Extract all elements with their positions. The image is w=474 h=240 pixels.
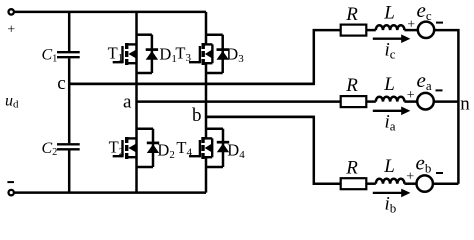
wire capacitor branch upper [68, 12, 71, 51]
capacitor C1 [57, 52, 80, 57]
svg-text:R: R [345, 4, 358, 25]
svg-text:+: + [407, 88, 415, 103]
wire R to L phase b [366, 182, 376, 185]
label minus source c [436, 22, 443, 24]
wire phase c feed vertical [69, 30, 341, 84]
resistor R phase b [341, 178, 367, 189]
wire R to L phase a [366, 100, 376, 103]
diode D2 [147, 129, 159, 167]
wire D3 loop top [206, 33, 223, 36]
arrow current i_a [373, 110, 403, 112]
svg-text:a: a [123, 92, 132, 113]
capacitor C2 [57, 144, 80, 149]
arrow current i_c [373, 38, 403, 40]
source e_a circle [417, 93, 434, 110]
wire L to source phase b [404, 182, 416, 185]
svg-text:n: n [460, 93, 470, 114]
wire node b line [206, 116, 314, 119]
wire capacitor branch lower [68, 150, 71, 192]
label minus sign bottom left [7, 181, 14, 183]
source e_c circle [418, 22, 434, 38]
wire leg 2 vertical middle [205, 62, 208, 139]
svg-text:L: L [383, 74, 395, 95]
terminal positive top left [9, 9, 14, 14]
diode D1 [146, 35, 158, 73]
wire L to source phase c [404, 29, 417, 32]
label minus source b [436, 172, 443, 174]
svg-text:R: R [345, 157, 358, 178]
wire D4 loop top [206, 127, 223, 130]
source e_b circle [417, 175, 433, 191]
inductor L phase a [376, 97, 405, 102]
wire R to L phase c [366, 29, 376, 32]
wire D1 loop top [137, 33, 152, 36]
transistor T4 [189, 137, 212, 159]
svg-text:+: + [407, 17, 415, 32]
wire source b to node n [433, 182, 459, 185]
transistor T2 [113, 137, 137, 159]
diode D4 [217, 129, 229, 167]
wire phase b feed vertical [206, 117, 341, 184]
wire source a to node n [434, 100, 459, 103]
arrow current i_b [373, 192, 403, 194]
wire D2 loop bottom [137, 166, 154, 169]
label minus source a [436, 89, 443, 91]
wire D4 loop bottom [206, 166, 223, 169]
wire D3 loop bottom [206, 72, 223, 75]
transistor T3 [189, 43, 212, 65]
svg-text:L: L [383, 156, 395, 177]
wire leg 2 vertical upper [205, 12, 208, 46]
terminal negative bottom left [9, 190, 14, 195]
wire source c to node n [434, 30, 458, 184]
wire leg 2 vertical lower [205, 156, 208, 192]
transistor T1 [113, 43, 137, 65]
wire node c line [69, 83, 314, 86]
inductor L phase c [376, 25, 405, 30]
svg-text:+: + [406, 169, 414, 184]
wire L to source phase a [404, 100, 417, 103]
wire D1 loop bottom [137, 72, 152, 75]
wire capacitor branch middle [68, 58, 71, 143]
wire bottom DC rail [13, 191, 206, 194]
wire node a line [137, 100, 341, 103]
resistor R phase c [341, 25, 367, 36]
diode D3 [217, 35, 229, 73]
wire top DC rail [13, 11, 206, 14]
svg-text:c: c [57, 73, 65, 94]
svg-text:+: + [7, 23, 15, 38]
svg-text:b: b [192, 105, 202, 126]
inductor L phase b [376, 179, 405, 184]
svg-text:R: R [345, 75, 358, 96]
resistor R phase a [341, 96, 367, 107]
svg-text:L: L [383, 3, 395, 24]
wire D2 loop top [137, 127, 154, 130]
wire leg 1 vertical [135, 12, 138, 193]
